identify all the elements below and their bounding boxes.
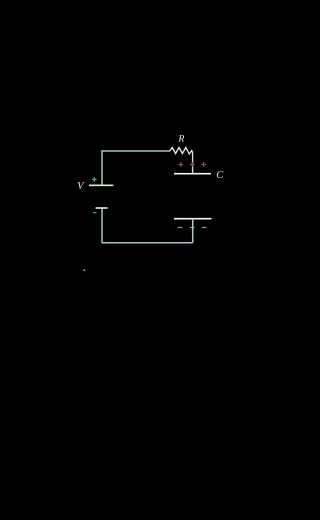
plus charge 3 on capacitor top plate: [201, 162, 206, 167]
minus charge 2 under capacitor bottom plate: [190, 227, 195, 229]
wire bottom rail: [102, 242, 193, 244]
wire (bottom rail up to battery - terminal): [101, 208, 103, 243]
resistor R zigzag: [170, 148, 193, 154]
minus charge 1 under capacitor bottom plate: [178, 227, 183, 229]
svg-text:V: V: [77, 181, 85, 192]
stray dot mark: [83, 269, 85, 271]
wire top-left (battery + terminal up and across to resistor): [102, 151, 170, 185]
svg-text:C: C: [216, 170, 224, 181]
plus sign at battery top: [92, 177, 97, 182]
minus sign at battery bottom: [93, 212, 96, 214]
wire (resistor output down to capacitor top plate): [192, 152, 194, 174]
capacitor C top plate: [174, 173, 211, 175]
capacitor C bottom plate: [174, 218, 212, 220]
plus charge 2 on capacitor top plate: [190, 162, 195, 167]
plus charge 1 on capacitor top plate: [178, 162, 183, 167]
svg-text:R: R: [177, 133, 184, 144]
minus charge 3 under capacitor bottom plate: [202, 227, 207, 229]
battery V top plate (+): [89, 184, 113, 186]
wire (capacitor bottom plate down to bottom rail): [192, 219, 194, 243]
battery V bottom plate (-): [96, 207, 108, 209]
